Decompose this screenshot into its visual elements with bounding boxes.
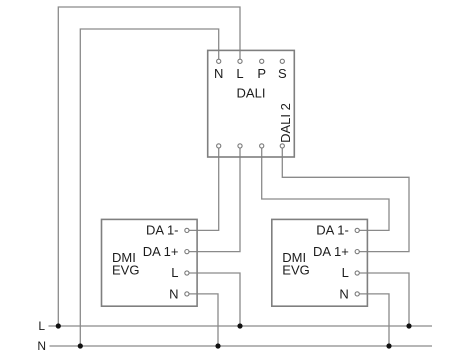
DALI terminal label N: [214, 66, 223, 81]
left EVG label DMI EVG: [112, 250, 139, 278]
right EVG terminal DA 1-: [355, 228, 359, 232]
left EVG terminal L: [185, 271, 189, 275]
svg-text:DA 1+: DA 1+: [313, 244, 349, 259]
right EVG label L: [342, 265, 349, 280]
svg-text:DA 1-: DA 1-: [146, 223, 179, 238]
DALI bottom terminal 3: [260, 144, 264, 148]
left EVG terminal DA 1-: [185, 228, 189, 232]
left DMI EVG ballast box: [102, 219, 198, 306]
wire N bus: [50, 345, 433, 347]
node N bus / DALI feed junction: [78, 343, 83, 348]
DALI terminal P top: [260, 59, 264, 63]
svg-text:N: N: [339, 287, 348, 302]
wire DALI bottom 2 to left EVG DA 1+: [187, 146, 240, 252]
svg-text:S: S: [278, 66, 287, 81]
right EVG terminal DA 1+: [355, 250, 359, 254]
right EVG label DMI EVG: [282, 250, 309, 278]
right DMI EVG ballast box: [272, 219, 368, 306]
wire DALI bottom 3 to right EVG DA 1-: [262, 146, 389, 231]
DALI 2 bus label (rotated): [278, 103, 293, 143]
right EVG terminal N: [355, 292, 359, 296]
DALI bottom terminal 1: [217, 144, 221, 148]
node label N (mains neutral): [37, 339, 46, 353]
wire DALI bottom 1 to left EVG DA 1-: [187, 146, 219, 231]
DALI terminal N top: [217, 59, 221, 63]
right EVG label N: [339, 287, 348, 302]
svg-text:N: N: [37, 339, 46, 353]
right EVG label DA 1+: [313, 244, 349, 259]
DALI label: [237, 86, 266, 101]
node L bus / right EVG junction: [406, 323, 411, 328]
wire L bus: [49, 325, 433, 327]
svg-text:L: L: [171, 265, 178, 280]
node L bus / left EVG junction: [237, 323, 242, 328]
DALI bottom terminal 4: [280, 144, 284, 148]
DALI bottom terminal 2: [238, 144, 242, 148]
left EVG terminal DA 1+: [185, 250, 189, 254]
wire N bus to DALI N terminal: [80, 29, 218, 346]
svg-text:N: N: [169, 287, 178, 302]
wire right EVG L to L bus: [357, 273, 409, 326]
DALI terminal L top: [238, 59, 242, 63]
svg-text:L: L: [236, 66, 243, 81]
DALI control unit U1 box: [208, 50, 295, 157]
DALI terminal label P: [257, 66, 266, 81]
left EVG terminal N: [185, 292, 189, 296]
node N bus / left EVG junction: [215, 343, 220, 348]
right EVG label DA 1-: [316, 223, 349, 238]
node L bus / DALI feed junction: [56, 323, 61, 328]
svg-text:N: N: [214, 66, 223, 81]
svg-text:L: L: [342, 265, 349, 280]
node N bus / right EVG junction: [386, 343, 391, 348]
left EVG label N: [169, 287, 178, 302]
wire right EVG N to N bus: [357, 294, 389, 346]
wire L bus to DALI L terminal: [58, 7, 240, 326]
DALI terminal label S: [278, 66, 287, 81]
wire DALI bottom 4 to right EVG DA 1+: [282, 146, 409, 252]
svg-text:L: L: [38, 319, 45, 333]
svg-text:P: P: [257, 66, 266, 81]
svg-text:EVG: EVG: [282, 263, 309, 278]
DALI terminal label L: [236, 66, 243, 81]
left EVG label DA 1+: [143, 244, 179, 259]
svg-text:DALI: DALI: [237, 86, 266, 101]
left EVG label L: [171, 265, 178, 280]
right EVG terminal L: [355, 271, 359, 275]
left EVG label DA 1-: [146, 223, 179, 238]
node label L (mains phase): [38, 319, 45, 333]
DALI terminal S top: [280, 59, 284, 63]
svg-text:DALI 2: DALI 2: [278, 103, 293, 143]
wire left EVG L to L bus: [187, 273, 240, 326]
wire left EVG N to N bus: [187, 294, 218, 346]
svg-text:DA 1-: DA 1-: [316, 223, 349, 238]
svg-text:EVG: EVG: [112, 263, 139, 278]
svg-text:DA 1+: DA 1+: [143, 244, 179, 259]
